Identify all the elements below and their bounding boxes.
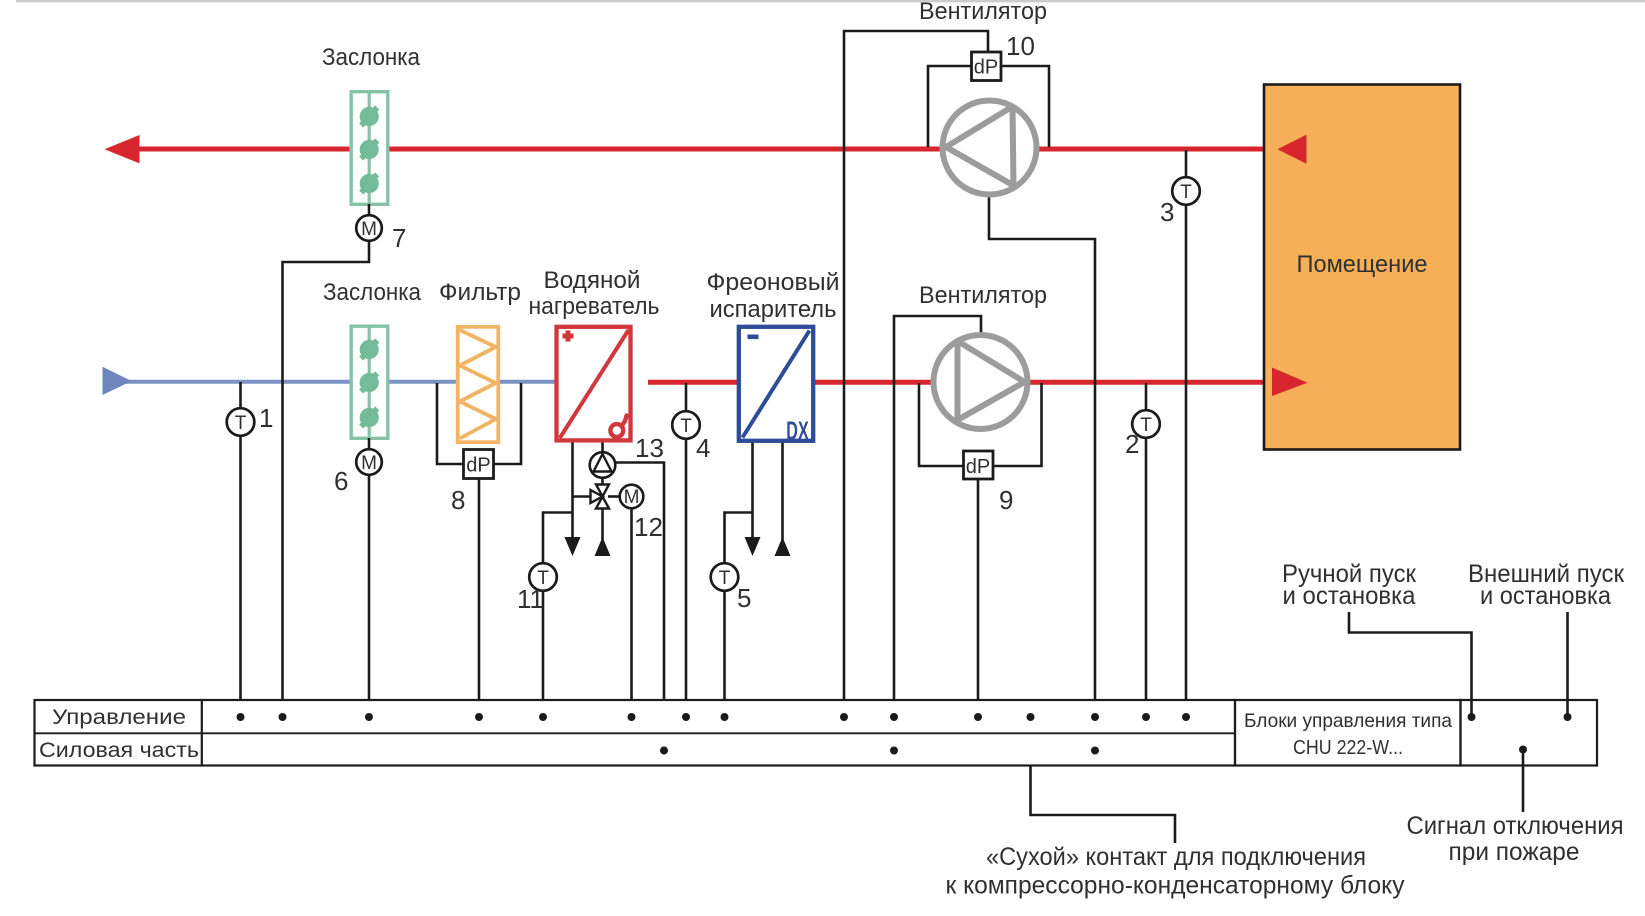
actuator M7 [356, 215, 382, 241]
three-way valve V12 [591, 485, 610, 509]
svg-text:5: 5 [737, 583, 751, 613]
damper D6 (bottom) [351, 326, 388, 438]
exhaust arrowhead left [105, 135, 140, 163]
svg-text:T: T [719, 568, 731, 589]
filter F8 [458, 327, 499, 442]
sensor T5 [711, 563, 739, 591]
power row dots [660, 747, 668, 755]
svg-text:Фильтр: Фильтр [439, 279, 521, 306]
supply duct blue segment 2 [388, 380, 458, 384]
wire pump to power bus [614, 463, 664, 752]
sensor T11 [529, 563, 557, 591]
wire damper M7 to bus [283, 240, 370, 717]
wire dP8 to bus [478, 478, 481, 717]
wire T5 to bus [723, 589, 726, 717]
freon evaporator [739, 327, 813, 446]
svg-text:Вентилятор: Вентилятор [919, 282, 1047, 309]
supply duct blue segment 1 [120, 380, 351, 384]
control bus junction dots [237, 713, 1572, 755]
wire external start pointer [1566, 612, 1569, 717]
wire M12 to bus [630, 507, 633, 717]
wire heater return pipe [571, 440, 574, 540]
damper D7 (top) [351, 92, 388, 205]
svg-text:CHU 222-W...: CHU 222-W... [1293, 737, 1403, 759]
room box [1264, 85, 1460, 450]
wire fire signal pointer [1522, 750, 1525, 813]
top edge artifact [16, 0, 1645, 2]
svg-text:Блоки управления типа: Блоки управления типа [1244, 710, 1452, 732]
wire fan10 power to bus [989, 194, 1095, 751]
wire fan9 control to bus [894, 316, 981, 751]
svg-text:11: 11 [517, 584, 544, 614]
svg-text:Помещение: Помещение [1297, 251, 1428, 278]
fan 9 (supply) [934, 335, 1028, 429]
actuator M6 link [368, 438, 371, 450]
valve actuator M12 [620, 485, 644, 509]
supply arrowhead into room [1272, 368, 1308, 397]
svg-text:Силовая часть: Силовая часть [39, 739, 199, 762]
svg-text:Водяной: Водяной [544, 267, 641, 294]
CHU unit box [1235, 700, 1461, 766]
wire filter dP8 left tap [437, 383, 465, 464]
svg-text:испаритель: испаритель [710, 296, 837, 323]
svg-text:3: 3 [1160, 197, 1174, 227]
wire manual start pointer [1349, 612, 1472, 717]
svg-text:1: 1 [259, 403, 273, 433]
supply duct red segment evaporator-room [813, 380, 1273, 385]
wire dP10 right tap [999, 66, 1049, 147]
svg-text:13: 13 [635, 433, 664, 463]
wire filter dP8 right tap [492, 383, 521, 464]
sensor T3 [1172, 177, 1200, 205]
svg-text:dP: dP [974, 57, 998, 79]
svg-text:7: 7 [392, 223, 406, 253]
wire valve supply with arrow [601, 505, 604, 540]
svg-text:2: 2 [1125, 429, 1139, 459]
svg-text:при пожаре: при пожаре [1449, 838, 1580, 866]
svg-text:6: 6 [334, 466, 348, 496]
svg-text:M: M [361, 219, 377, 240]
svg-text:«Сухой» контакт для подключени: «Сухой» контакт для подключения [986, 843, 1366, 871]
svg-text:нагреватель: нагреватель [529, 293, 660, 320]
dP10 box [972, 52, 1002, 81]
svg-text:dP: dP [966, 456, 990, 478]
wire T4 drop [685, 383, 688, 717]
svg-text:12: 12 [634, 512, 663, 542]
svg-text:4: 4 [696, 433, 710, 463]
wire evaporator return pipe [751, 440, 754, 540]
control row divider [35, 732, 1236, 734]
svg-text:T: T [235, 413, 247, 434]
wire T11 to bus [542, 589, 545, 717]
actuator M6 [356, 449, 382, 475]
wire heater return tee to valve [573, 495, 592, 498]
evaporator return arrow (down) [745, 537, 761, 556]
svg-text:T: T [1180, 182, 1192, 203]
svg-text:M: M [361, 453, 377, 474]
svg-text:M: M [624, 487, 640, 508]
svg-text:DX: DX [786, 415, 809, 445]
wire evaporator supply pipe [781, 440, 784, 540]
svg-text:8: 8 [451, 485, 465, 515]
svg-text:Управление: Управление [52, 706, 186, 729]
svg-text:и остановка: и остановка [1283, 582, 1416, 610]
wire evaporator tee to T5 [725, 513, 753, 566]
supply duct red segment heater-evaporator [648, 380, 739, 385]
wire dry contact pointer [1031, 717, 1176, 843]
svg-text:10: 10 [1006, 31, 1035, 61]
svg-text:Заслонка: Заслонка [323, 279, 422, 306]
wire T1 sensor drop [239, 382, 242, 717]
wire damper M6 to bus [368, 474, 371, 717]
wire T3 drop [1185, 150, 1188, 717]
dP9 box [964, 451, 994, 479]
svg-text:Фреоновый: Фреоновый [707, 269, 840, 296]
svg-text:к компрессорно-конденсаторному: к компрессорно-конденсаторному блоку [946, 872, 1405, 900]
wire dP9 right tap [991, 383, 1042, 466]
wire dP9 to bus [977, 479, 980, 717]
evaporator supply arrow (up) [775, 537, 791, 556]
svg-text:Заслонка: Заслонка [322, 44, 421, 71]
wire heater to pump [601, 440, 604, 453]
heater supply arrow (up) [595, 537, 611, 556]
pump P13 [590, 452, 616, 478]
svg-text:dP: dP [466, 455, 490, 477]
label column divider [201, 700, 203, 766]
wire dP10 left tap [928, 66, 973, 147]
supply inlet blue arrowhead [103, 367, 132, 395]
dP8 box [464, 450, 494, 479]
exhaust arrowhead at room [1278, 135, 1307, 164]
sensor T4 [672, 411, 700, 439]
wire heater return tee to T11 [543, 513, 573, 566]
wire dP9 left tap [919, 383, 965, 466]
svg-text:9: 9 [999, 485, 1013, 515]
heater return arrow (down) [565, 537, 581, 556]
supply duct blue segment 3 [498, 380, 557, 384]
svg-text:Вентилятор: Вентилятор [919, 0, 1047, 25]
wire pump to valve [601, 477, 604, 485]
wire T2 drop [1145, 383, 1148, 717]
external box dots [1468, 713, 1476, 721]
sensor T2 [1132, 410, 1160, 438]
svg-text:Сигнал отключения: Сигнал отключения [1407, 812, 1624, 840]
svg-text:T: T [1140, 415, 1152, 436]
control unit outer box [35, 700, 1236, 766]
svg-text:T: T [680, 416, 692, 437]
water heater [557, 327, 631, 441]
wire fan10 control to bus [844, 31, 988, 717]
external terminal box [1461, 700, 1598, 766]
svg-text:и остановка: и остановка [1480, 582, 1611, 610]
actuator M7 link [368, 204, 371, 216]
wire valve to M12 [608, 495, 620, 498]
fan 10 (exhaust) [943, 101, 1037, 195]
sensor T1 [227, 408, 255, 436]
exhaust duct red line (top) [128, 147, 1278, 152]
